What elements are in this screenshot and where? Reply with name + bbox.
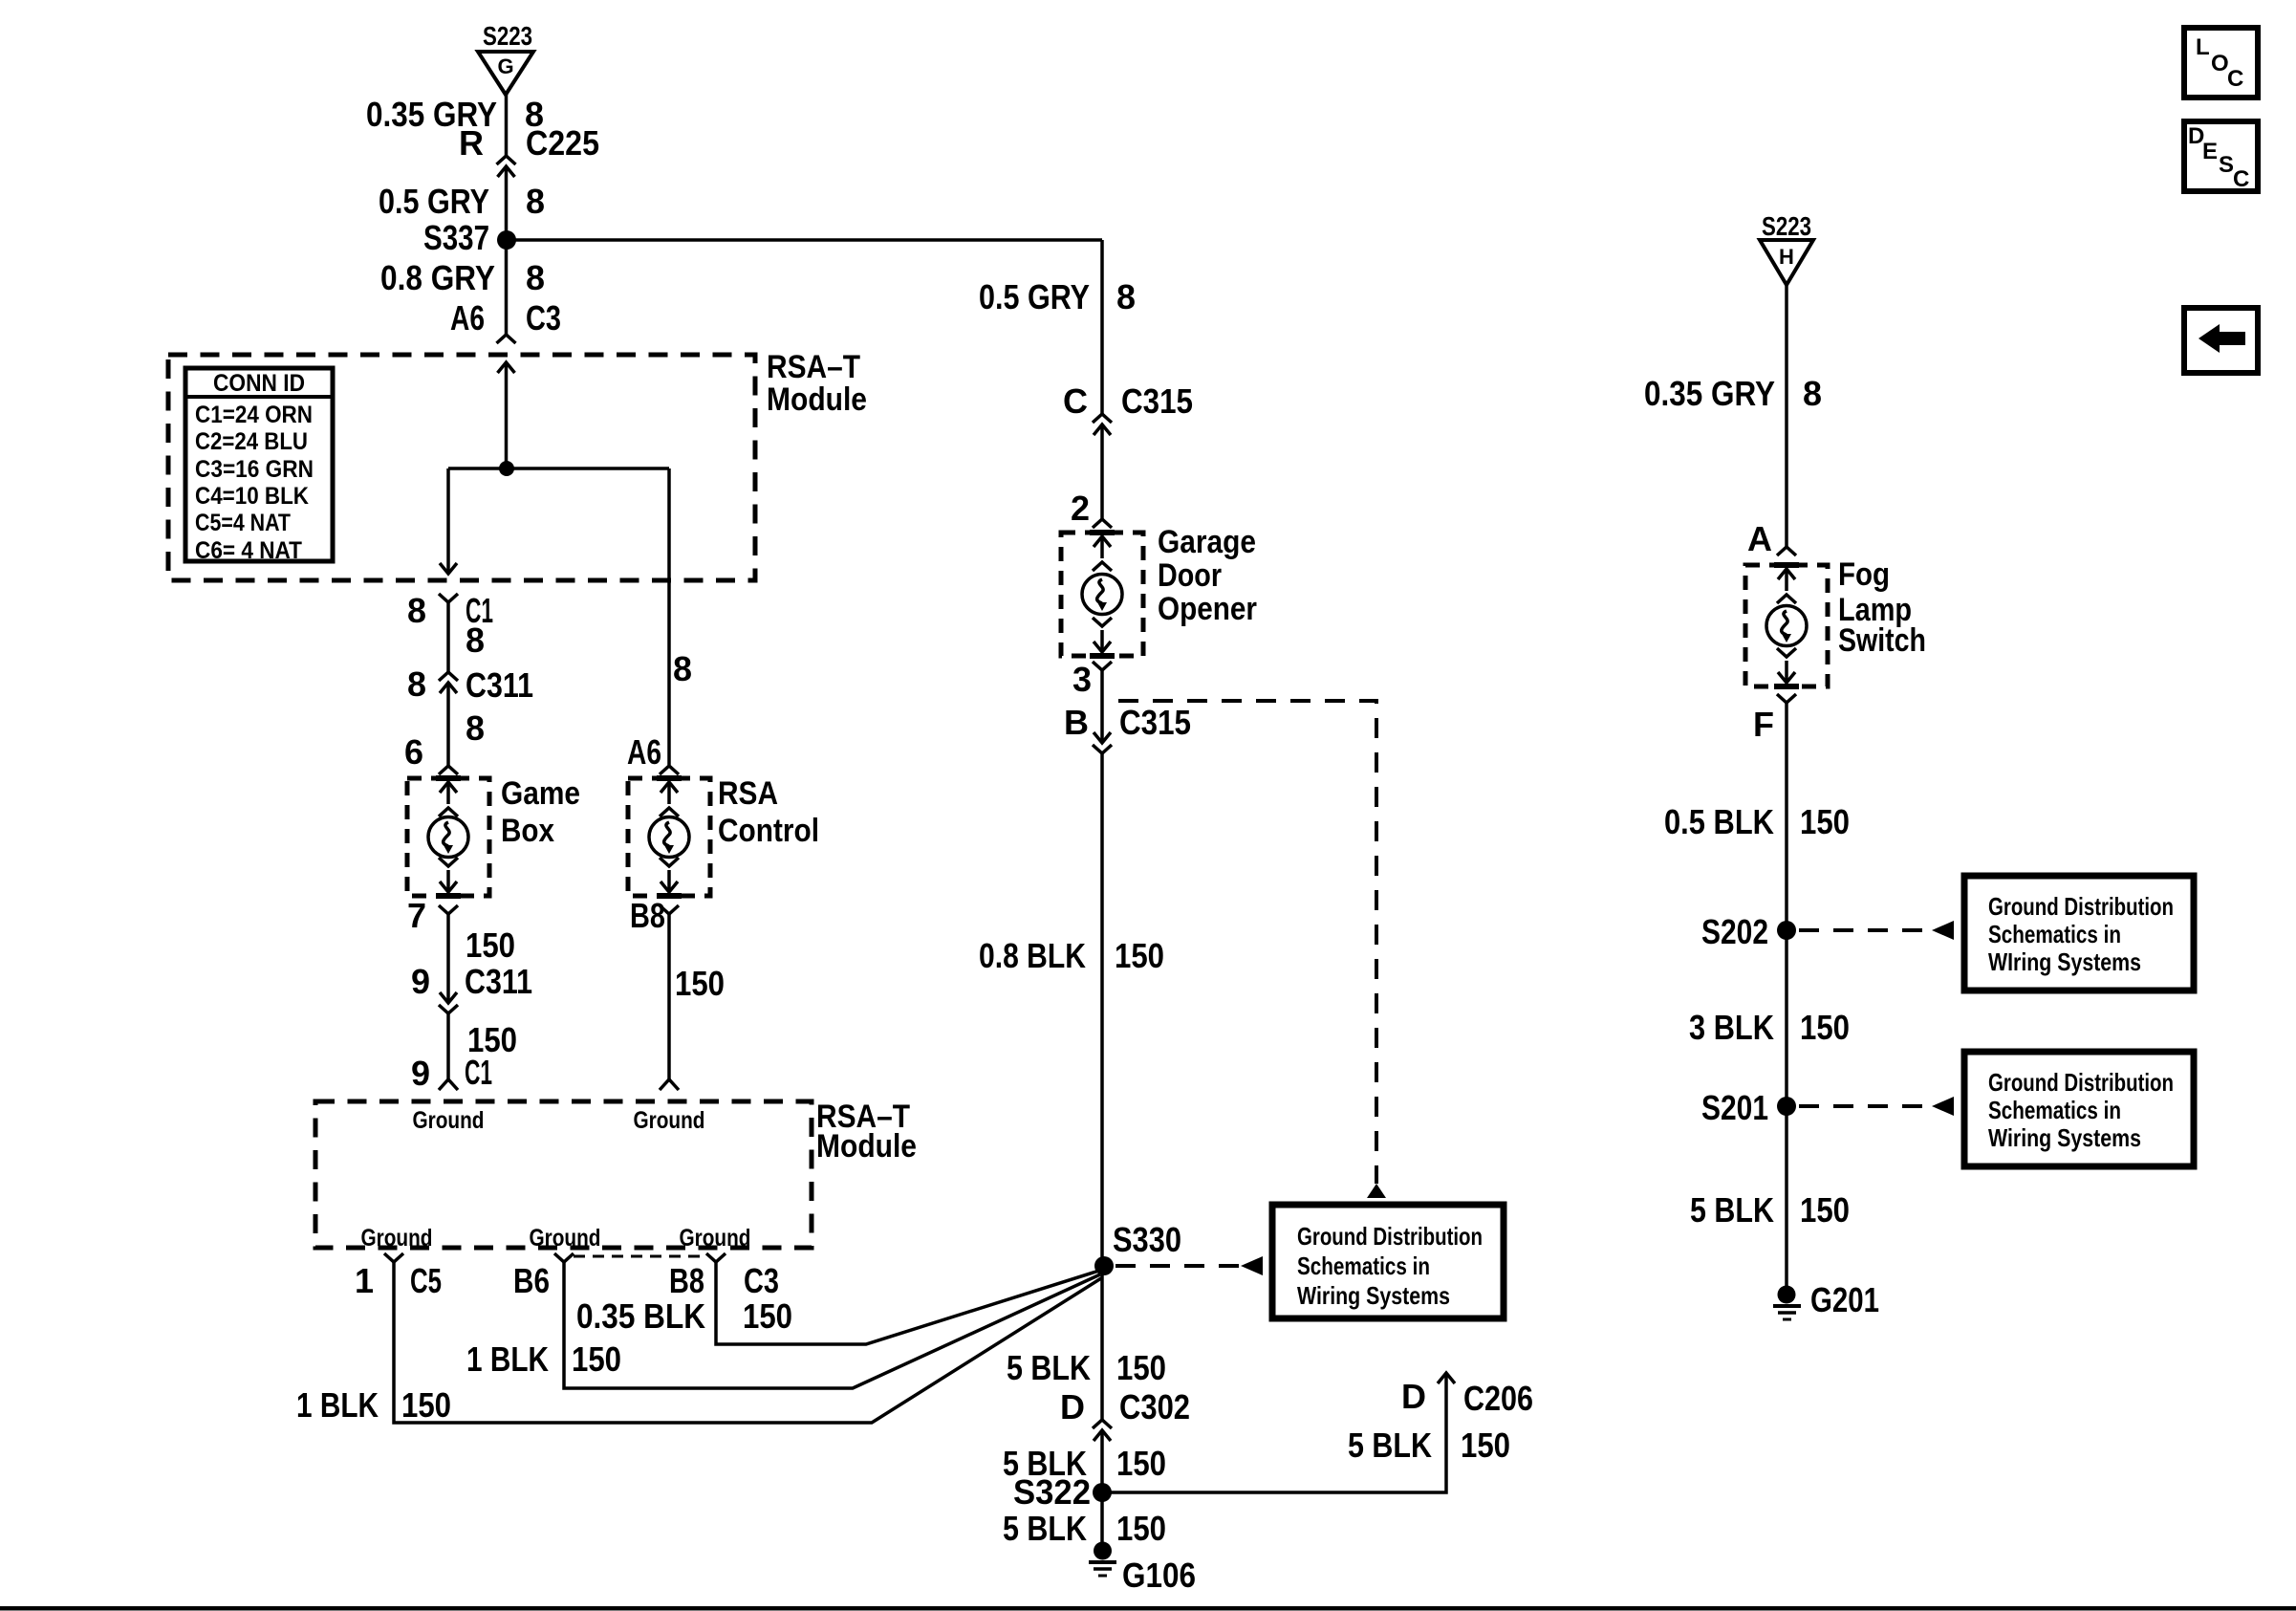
pin label B8 / C3 (669, 1261, 779, 1300)
connector C225 (497, 156, 516, 177)
wire C225 to S337 (505, 166, 509, 240)
wire label 5 BLK / 150 (right) (1690, 1190, 1850, 1230)
svg-text:S330: S330 (1113, 1220, 1181, 1259)
button box back arrow (2184, 308, 2258, 373)
svg-text:D: D (1401, 1377, 1426, 1416)
svg-text:H: H (1779, 245, 1794, 269)
svg-text:Ground: Ground (361, 1225, 433, 1252)
wire triangle H to Fog Lamp Switch (1785, 285, 1788, 547)
svg-text:150: 150 (1800, 1190, 1850, 1230)
wire C311 to Game Box (446, 683, 450, 766)
connector chevron below RSA Control (660, 905, 679, 914)
wire C302 to S322 (1100, 1430, 1104, 1492)
button box LOC (2184, 28, 2258, 98)
svg-text:8: 8 (466, 708, 485, 748)
svg-text:C311: C311 (466, 665, 533, 705)
svg-text:0.5 GRY: 0.5 GRY (379, 182, 489, 221)
svg-text:1 BLK: 1 BLK (296, 1385, 379, 1425)
svg-text:150: 150 (743, 1296, 792, 1336)
wire C1 to C311 (446, 602, 450, 672)
wire label 0.5 GRY / 8 (379, 182, 545, 221)
wire S322 to connector C206 (1102, 1373, 1455, 1492)
svg-text:B6: B6 (513, 1261, 550, 1300)
label G201 (1810, 1280, 1879, 1319)
svg-text:2: 2 (1071, 489, 1090, 528)
svg-text:0.35 BLK: 0.35 BLK (576, 1296, 705, 1336)
wire label 0.8 BLK / 150 (979, 936, 1164, 975)
wire label 5 BLK / 150 (above C302) (1007, 1348, 1166, 1387)
connector C302 (1093, 1420, 1112, 1441)
wire Fog Lamp Switch to G201 (1785, 703, 1788, 1286)
svg-text:8: 8 (466, 620, 485, 660)
svg-text:Ground: Ground (413, 1107, 485, 1134)
pin label 9 / C311 (411, 962, 532, 1001)
svg-text:C4=10 BLK: C4=10 BLK (195, 483, 309, 510)
svg-text:C302: C302 (1119, 1387, 1190, 1426)
reference box Ground Distribution (middle) (1272, 1205, 1504, 1318)
svg-text:Ground: Ground (530, 1225, 601, 1252)
wire S337 down to A6 C3 (505, 240, 509, 335)
off-page triangle S223 H (1760, 240, 1813, 285)
reference box Ground Distribution (upper right) (1964, 876, 2194, 991)
wire label 0.8 GRY / 8 (380, 258, 545, 297)
svg-text:150: 150 (401, 1385, 451, 1425)
svg-text:8: 8 (526, 182, 545, 221)
pin label D (C206) (1401, 1377, 1426, 1416)
svg-text:F: F (1753, 705, 1774, 744)
pin label D (1060, 1387, 1085, 1426)
pin label R (459, 123, 484, 163)
wire C315 to Garage Door Opener (1100, 425, 1104, 519)
connector chevron pin B8 C3 (706, 1253, 726, 1262)
pin label A6 (450, 298, 485, 337)
wire S322 to G106 (1100, 1492, 1104, 1542)
wire C5 ground to S330 (394, 1262, 1101, 1423)
splice S337 (497, 230, 516, 250)
svg-text:5 BLK: 5 BLK (1690, 1190, 1774, 1230)
svg-text:A: A (1747, 519, 1772, 558)
connector label C206 (1463, 1379, 1533, 1418)
svg-text:1 BLK: 1 BLK (466, 1339, 549, 1379)
svg-text:C6= 4 NAT: C6= 4 NAT (195, 537, 302, 564)
CONN ID table (185, 368, 333, 564)
pin label A (1747, 519, 1772, 558)
connector label C225 (526, 123, 599, 163)
splice S322 (1093, 1483, 1112, 1502)
splice S330 (1094, 1256, 1114, 1275)
connector label C315 (upper) (1121, 381, 1193, 421)
pin label 8 / C1 (407, 591, 493, 630)
wire Game Box to C311 lower (446, 914, 450, 1003)
svg-text:WIring Systems: WIring Systems (1988, 947, 2141, 976)
label S223 (right splice reference) (1762, 211, 1811, 241)
svg-text:150: 150 (1800, 1008, 1850, 1047)
ground G201 (1773, 1286, 1801, 1320)
svg-text:150: 150 (1800, 802, 1850, 841)
svg-text:C225: C225 (526, 123, 599, 163)
svg-text:C315: C315 (1121, 381, 1193, 421)
label Fog Lamp Switch (1838, 556, 1926, 659)
pin label Ground (lower 2) (530, 1225, 601, 1252)
pin label B (1064, 703, 1089, 742)
svg-text:C2=24 BLU: C2=24 BLU (195, 428, 308, 455)
connector label C315 (lower) (1119, 703, 1191, 742)
wire C315 B to S330 (1100, 753, 1104, 1266)
internal wire to ground pin C3 (right branch) (667, 468, 671, 765)
pin label F (1753, 705, 1774, 744)
svg-text:0.35 GRY: 0.35 GRY (1644, 374, 1775, 413)
svg-text:Control: Control (718, 813, 819, 849)
svg-text:Door: Door (1158, 557, 1222, 594)
dashed reference line from S202 (1799, 928, 1930, 932)
wire label 0.5 BLK / 150 (1664, 802, 1850, 841)
svg-text:5 BLK: 5 BLK (1007, 1348, 1091, 1387)
connector chevron above Garage Door Opener (1093, 519, 1112, 528)
svg-text:8: 8 (526, 258, 545, 297)
svg-text:C: C (2227, 66, 2243, 92)
svg-text:C315: C315 (1119, 703, 1191, 742)
wire label 0.35 GRY / 8 (366, 95, 544, 134)
button box DESC (2184, 121, 2258, 192)
pin label 3 (1072, 660, 1092, 699)
svg-text:G201: G201 (1810, 1280, 1879, 1319)
svg-text:3 BLK: 3 BLK (1689, 1008, 1774, 1047)
connector chevron below Fog Lamp Switch (1777, 694, 1796, 703)
module RSA-T Module (upper dashed box) (168, 355, 755, 580)
wire label 5 BLK / 150 (above S322) (1003, 1444, 1166, 1483)
splice S201 (1777, 1097, 1796, 1116)
internal wire to ground pin C1 with arrow (440, 468, 457, 574)
svg-text:1: 1 (355, 1261, 374, 1300)
label RSA-T Module (lower) (816, 1099, 917, 1165)
svg-text:8: 8 (673, 649, 692, 688)
wire label 1 BLK / 150 (C5) (296, 1385, 451, 1425)
label RSA-T Module (upper) (767, 349, 867, 418)
svg-text:8: 8 (1803, 374, 1822, 413)
wire label 1 BLK / 150 (B6) (466, 1339, 621, 1379)
connector chevron pin B6 (554, 1253, 574, 1262)
connector chevron pin 1 C5 (384, 1253, 403, 1262)
svg-text:150: 150 (1116, 1348, 1166, 1387)
page bottom border (0, 1606, 2296, 1611)
pin label 9 / C1 (411, 1053, 492, 1093)
connector chevron below Garage Door Opener (1093, 662, 1112, 670)
connector chevron C1 below module (439, 594, 458, 602)
svg-text:9: 9 (411, 1054, 430, 1093)
connector chevron above Game Box (439, 766, 458, 774)
pin label Ground (upper left) (413, 1107, 485, 1134)
svg-text:O: O (2211, 51, 2229, 76)
connector chevron below Game Box (439, 905, 458, 914)
svg-text:S322: S322 (1013, 1472, 1091, 1512)
svg-text:RSA: RSA (718, 775, 778, 812)
svg-text:C3: C3 (526, 298, 561, 337)
wire C3 ground to S330 (716, 1262, 1099, 1344)
svg-text:150: 150 (466, 925, 515, 965)
off-page triangle S223 G (478, 52, 533, 95)
wire label 0.35 GRY / 8 (right) (1644, 374, 1822, 413)
connector chevron C1 at lower module edge (439, 1079, 458, 1090)
svg-text:8: 8 (407, 591, 426, 630)
label Game Box (501, 775, 580, 849)
svg-text:0.8 GRY: 0.8 GRY (380, 258, 495, 297)
wire label 150 (466, 925, 515, 965)
svg-text:Wiring Systems: Wiring Systems (1988, 1123, 2141, 1152)
svg-text:Switch: Switch (1838, 622, 1926, 659)
label G106 (1122, 1556, 1196, 1595)
component Fog Lamp Switch (1745, 565, 1828, 686)
ground G106 (1089, 1542, 1116, 1577)
connector chevron A6 at module edge (497, 335, 516, 343)
svg-text:Schematics in: Schematics in (1988, 920, 2121, 948)
label S337 (423, 218, 489, 257)
svg-text:Ground Distribution: Ground Distribution (1988, 892, 2174, 921)
label S223 (left splice reference) (483, 21, 532, 51)
connector chevron RSA wire at lower module edge (660, 1079, 679, 1090)
svg-text:0.5 GRY: 0.5 GRY (979, 277, 1090, 316)
wire label 3 BLK / 150 (1689, 1008, 1850, 1047)
svg-text:Ground Distribution: Ground Distribution (1988, 1068, 2174, 1097)
svg-text:D: D (1060, 1387, 1085, 1426)
svg-text:Ground: Ground (680, 1225, 751, 1252)
svg-text:C3=16 GRN: C3=16 GRN (195, 456, 314, 483)
svg-text:RSA–T: RSA–T (767, 349, 860, 385)
internal wire across module (448, 467, 669, 470)
wire label 8 (466, 620, 485, 660)
connector C315 B (1093, 732, 1112, 753)
svg-text:Module: Module (816, 1128, 917, 1165)
wire RSA Control to lower module (667, 914, 671, 1079)
wire S337 to middle column (507, 238, 1102, 242)
pin label B6 (513, 1261, 550, 1300)
svg-text:3: 3 (1072, 660, 1092, 699)
svg-text:9: 9 (411, 962, 430, 1001)
wire Garage Door Opener to C315 B (1100, 670, 1104, 743)
svg-text:C: C (2233, 166, 2249, 192)
svg-text:E: E (2202, 139, 2218, 164)
wire label 0.35 BLK / 150 (576, 1296, 792, 1336)
svg-text:Module: Module (767, 381, 867, 418)
reference arrow (left) at S330 (1241, 1256, 1263, 1275)
reference arrow (left) at S202 (1932, 921, 1954, 940)
label RSA Control (718, 775, 819, 849)
wire S330 to C302 (1100, 1266, 1104, 1420)
wire label 5 BLK / 150 (above G106) (1003, 1509, 1166, 1548)
pin label Ground (lower 1) (361, 1225, 433, 1252)
dashed reference line from S201 (1799, 1104, 1930, 1108)
connector label C302 (1119, 1387, 1190, 1426)
pin arrow into module at A6 (498, 362, 515, 468)
svg-text:Fog: Fog (1838, 556, 1890, 593)
component Garage Door Opener (1061, 533, 1143, 656)
pin label B8 (RSA Control) (630, 896, 665, 935)
svg-text:C311: C311 (465, 962, 532, 1001)
wire label 8 (RSA branch) (673, 649, 692, 688)
label S202 (1701, 912, 1768, 951)
wire label 8 (466, 708, 485, 748)
reference arrow (left) at S201 (1932, 1097, 1954, 1116)
svg-text:C3: C3 (744, 1261, 779, 1300)
svg-text:S201: S201 (1701, 1088, 1768, 1127)
svg-text:S202: S202 (1701, 912, 1768, 951)
svg-text:150: 150 (1461, 1426, 1510, 1465)
wire label 150 (467, 1020, 517, 1059)
svg-text:G106: G106 (1122, 1556, 1196, 1595)
svg-text:150: 150 (1115, 936, 1164, 975)
svg-text:150: 150 (675, 964, 725, 1003)
connector C311 upper (439, 672, 458, 693)
svg-text:C5=4 NAT: C5=4 NAT (195, 510, 291, 536)
svg-text:Schematics in: Schematics in (1988, 1096, 2121, 1124)
component Game Box (407, 778, 489, 896)
wire middle column down from S337 (1100, 240, 1104, 414)
component RSA Control (628, 778, 710, 896)
svg-text:A6: A6 (450, 298, 485, 337)
label Garage Door Opener (1158, 524, 1257, 627)
svg-text:Garage: Garage (1158, 524, 1256, 560)
connector C315 C (1093, 414, 1112, 435)
svg-text:S223: S223 (483, 21, 532, 51)
svg-text:CONN ID: CONN ID (213, 370, 305, 397)
pin label 8 / C311 (407, 664, 533, 705)
svg-text:S: S (2219, 152, 2234, 178)
svg-text:5 BLK: 5 BLK (1003, 1509, 1087, 1548)
splice S202 (1777, 921, 1796, 940)
label S322 (1013, 1472, 1091, 1512)
pin label 1 / C5 (355, 1261, 442, 1300)
pin label 7 (407, 896, 426, 935)
svg-text:Game: Game (501, 775, 580, 812)
svg-text:Schematics in: Schematics in (1297, 1252, 1430, 1280)
svg-text:7: 7 (407, 896, 426, 935)
svg-text:5 BLK: 5 BLK (1348, 1426, 1432, 1465)
label S330 (1113, 1220, 1181, 1259)
svg-text:L: L (2196, 34, 2210, 60)
svg-text:A6: A6 (627, 732, 661, 772)
svg-text:Wiring Systems: Wiring Systems (1297, 1281, 1450, 1310)
connector label C3 (526, 298, 561, 337)
svg-text:B: B (1064, 703, 1089, 742)
svg-text:C1=24 ORN: C1=24 ORN (195, 402, 313, 428)
connector chevron above RSA Control (660, 766, 679, 774)
svg-text:R: R (459, 123, 484, 163)
pin label Ground (lower 3) (680, 1225, 751, 1252)
connector chevron above Fog Lamp Switch (1777, 547, 1796, 555)
label S201 (1701, 1088, 1768, 1127)
svg-text:Box: Box (501, 813, 554, 849)
dashed link between B6 and B8 pins (574, 1255, 706, 1258)
svg-text:B8: B8 (630, 896, 665, 935)
svg-text:G: G (497, 54, 513, 78)
wire label 150 (RSA branch) (675, 964, 725, 1003)
svg-text:S337: S337 (423, 218, 489, 257)
pin label Ground (upper right) (634, 1107, 705, 1134)
svg-text:B8: B8 (669, 1261, 704, 1300)
svg-text:S223: S223 (1762, 211, 1811, 241)
svg-text:150: 150 (1116, 1444, 1166, 1483)
pin label C (1063, 381, 1088, 421)
wire B6 ground to S330 (564, 1262, 1100, 1388)
svg-text:Ground: Ground (634, 1107, 705, 1134)
wire C311 to C1 lower (446, 1013, 450, 1079)
dashed reference line from C315 to ground distribution (1118, 701, 1376, 1184)
svg-text:Opener: Opener (1158, 591, 1257, 627)
pin label A6 (RSA Control) (627, 732, 661, 772)
reference arrow (up) at ground distribution box (1367, 1184, 1386, 1198)
connector C311 lower (439, 992, 458, 1013)
svg-text:8: 8 (407, 664, 426, 704)
svg-text:Ground Distribution: Ground Distribution (1297, 1222, 1483, 1251)
svg-text:C1: C1 (465, 1053, 492, 1092)
junction splice inside module (499, 461, 514, 476)
svg-text:0.8 BLK: 0.8 BLK (979, 936, 1086, 975)
svg-text:C206: C206 (1463, 1379, 1533, 1418)
pin label 2 (1071, 489, 1090, 528)
wire label 0.5 GRY / 8 (middle) (979, 277, 1136, 316)
svg-text:150: 150 (1116, 1509, 1166, 1548)
module RSA-T Module (lower dashed box) (315, 1101, 812, 1248)
svg-text:6: 6 (404, 732, 423, 772)
wire from triangle G to connector C225 (505, 95, 509, 156)
svg-text:150: 150 (572, 1339, 621, 1379)
svg-text:C: C (1063, 381, 1088, 421)
wire label 5 BLK / 150 (C206) (1348, 1426, 1510, 1465)
svg-text:C5: C5 (410, 1261, 442, 1300)
dashed reference line from S330 (1116, 1264, 1240, 1268)
pin label 6 (404, 732, 423, 772)
svg-text:0.5 BLK: 0.5 BLK (1664, 802, 1774, 841)
svg-text:8: 8 (1116, 277, 1136, 316)
reference box Ground Distribution (lower right) (1964, 1052, 2194, 1166)
